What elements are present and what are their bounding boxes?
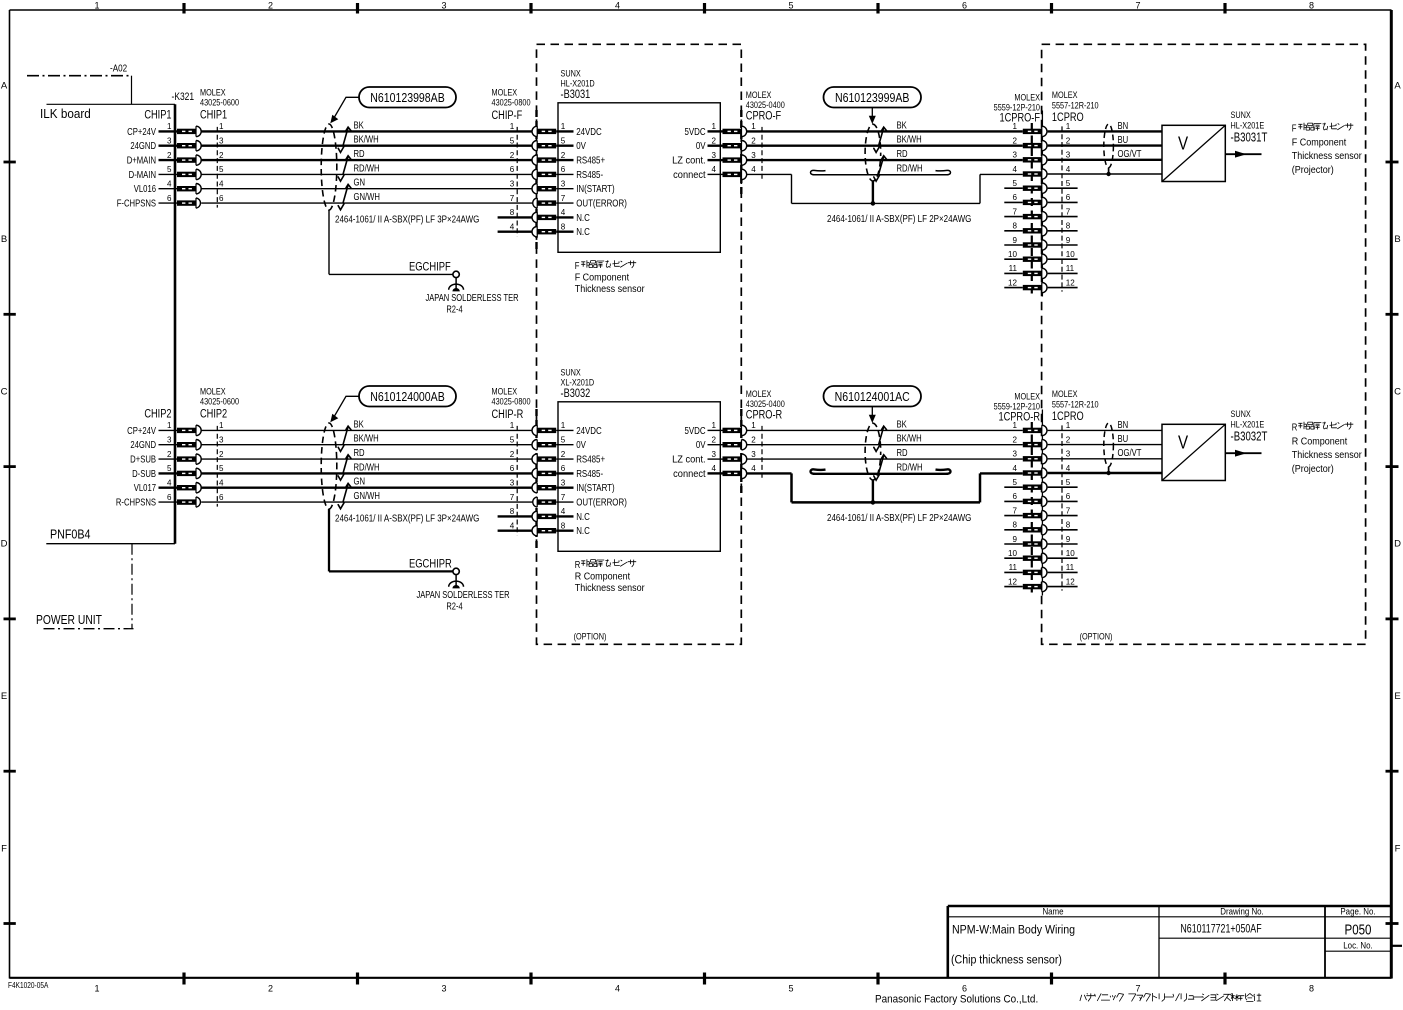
svg-text:LZ cont.: LZ cont.	[672, 454, 705, 466]
svg-text:V: V	[1178, 133, 1189, 154]
svg-text:2: 2	[268, 984, 273, 994]
svg-text:2: 2	[561, 449, 566, 459]
svg-text:43025-0600: 43025-0600	[200, 396, 239, 407]
svg-text:8: 8	[510, 506, 515, 516]
svg-text:GN/WH: GN/WH	[354, 490, 380, 501]
svg-text:1: 1	[510, 420, 515, 430]
svg-text:43025-0800: 43025-0800	[492, 97, 531, 108]
svg-text:3: 3	[1066, 448, 1071, 458]
svg-text:(Projector): (Projector)	[1292, 463, 1334, 475]
svg-text:(Projector): (Projector)	[1292, 164, 1334, 176]
svg-text:4: 4	[1013, 463, 1018, 473]
svg-text:6: 6	[219, 193, 224, 203]
svg-text:2: 2	[167, 449, 172, 459]
svg-text:4: 4	[712, 164, 717, 174]
svg-text:PNF0B4: PNF0B4	[50, 528, 91, 542]
svg-text:8: 8	[1066, 220, 1071, 230]
svg-text:2464-1061/ II A-SBX(PF) LF 3P×: 2464-1061/ II A-SBX(PF) LF 3P×24AWG	[335, 513, 479, 524]
svg-text:-B3032T: -B3032T	[1231, 430, 1268, 443]
svg-text:F: F	[1395, 844, 1401, 855]
svg-text:6: 6	[219, 492, 224, 502]
svg-text:4: 4	[1066, 463, 1071, 473]
svg-text:4: 4	[510, 520, 515, 530]
svg-text:6: 6	[1013, 491, 1018, 501]
svg-text:12: 12	[1008, 576, 1017, 586]
svg-text:RD: RD	[354, 148, 365, 159]
svg-text:BK: BK	[897, 418, 907, 429]
svg-text:R: R	[575, 559, 581, 570]
svg-text:BK/WH: BK/WH	[354, 433, 379, 444]
svg-text:7: 7	[561, 193, 566, 203]
svg-text:3: 3	[441, 984, 446, 994]
svg-text:IN(START): IN(START)	[576, 183, 614, 194]
svg-text:E: E	[1394, 691, 1400, 702]
svg-text:1: 1	[712, 121, 717, 131]
svg-text:6: 6	[1066, 491, 1071, 501]
svg-text:F: F	[1, 844, 7, 855]
svg-text:CHIP1: CHIP1	[200, 108, 227, 121]
svg-text:R-CHPSNS: R-CHPSNS	[116, 496, 156, 507]
svg-text:D+SUB: D+SUB	[130, 454, 156, 465]
svg-text:0V: 0V	[696, 439, 706, 450]
svg-text:N.C: N.C	[576, 511, 590, 522]
svg-text:6: 6	[510, 164, 515, 174]
svg-text:ILK board: ILK board	[40, 106, 91, 120]
svg-text:7: 7	[1135, 1, 1140, 11]
svg-text:2: 2	[167, 150, 172, 160]
svg-text:C: C	[1, 387, 8, 398]
svg-text:RD/WH: RD/WH	[354, 461, 380, 472]
svg-text:2: 2	[1066, 135, 1071, 145]
svg-text:(OPTION): (OPTION)	[574, 630, 607, 641]
svg-text:RD/WH: RD/WH	[897, 162, 923, 173]
svg-text:6: 6	[510, 463, 515, 473]
svg-text:24GND: 24GND	[130, 140, 156, 151]
svg-text:3: 3	[712, 449, 717, 459]
svg-text:N610124000AB: N610124000AB	[370, 389, 445, 404]
svg-text:BK: BK	[354, 418, 364, 429]
svg-text:VL017: VL017	[134, 482, 156, 493]
svg-text:B: B	[1394, 234, 1400, 245]
svg-text:CPRO-R: CPRO-R	[746, 408, 783, 421]
svg-text:2: 2	[561, 150, 566, 160]
svg-text:4: 4	[751, 164, 756, 174]
svg-text:5VDC: 5VDC	[684, 126, 705, 137]
svg-text:4: 4	[167, 477, 172, 487]
svg-text:D-MAIN: D-MAIN	[129, 169, 156, 180]
svg-text:2: 2	[510, 449, 515, 459]
svg-text:2464-1061/ II A-SBX(PF) LF 2P×: 2464-1061/ II A-SBX(PF) LF 2P×24AWG	[827, 512, 971, 523]
svg-text:5: 5	[1013, 178, 1018, 188]
svg-text:A: A	[1394, 81, 1401, 92]
svg-text:IN(START): IN(START)	[576, 482, 614, 493]
svg-text:BU: BU	[1118, 134, 1129, 145]
svg-text:3: 3	[167, 135, 172, 145]
svg-text:RD: RD	[354, 447, 365, 458]
svg-text:BU: BU	[1118, 433, 1129, 444]
svg-text:N610117721+050AF: N610117721+050AF	[1180, 924, 1261, 936]
svg-text:EGCHIPF: EGCHIPF	[409, 260, 451, 273]
svg-text:Loc. No.: Loc. No.	[1343, 940, 1372, 951]
svg-text:7: 7	[1013, 505, 1018, 515]
svg-text:HL-X201E: HL-X201E	[1231, 418, 1265, 429]
svg-text:BK/WH: BK/WH	[897, 134, 922, 145]
svg-text:OUT(ERROR): OUT(ERROR)	[576, 198, 627, 209]
svg-text:3: 3	[441, 1, 446, 11]
svg-text:R2-4: R2-4	[446, 601, 462, 612]
svg-text:2: 2	[751, 135, 756, 145]
svg-text:9: 9	[1066, 534, 1071, 544]
svg-text:1: 1	[167, 121, 172, 131]
svg-text:4: 4	[712, 463, 717, 473]
svg-text:9: 9	[1013, 235, 1018, 245]
svg-text:3: 3	[219, 434, 224, 444]
svg-text:3: 3	[510, 178, 515, 188]
svg-text:E: E	[1, 691, 7, 702]
svg-text:2: 2	[712, 135, 717, 145]
svg-text:RD: RD	[897, 447, 908, 458]
svg-text:SUNX: SUNX	[1231, 408, 1252, 419]
svg-text:3: 3	[1013, 448, 1018, 458]
svg-text:F Component: F Component	[575, 272, 630, 284]
svg-text:3: 3	[1066, 149, 1071, 159]
svg-text:2: 2	[751, 434, 756, 444]
svg-text:GN: GN	[354, 476, 366, 487]
svg-text:2: 2	[268, 1, 273, 11]
svg-text:CP+24V: CP+24V	[127, 126, 156, 137]
svg-text:BN: BN	[1118, 419, 1129, 430]
svg-text:1: 1	[561, 420, 566, 430]
svg-text:7: 7	[561, 492, 566, 502]
svg-text:A: A	[1, 81, 8, 92]
svg-text:12: 12	[1008, 277, 1017, 287]
svg-text:R2-4: R2-4	[446, 304, 462, 315]
svg-text:0V: 0V	[696, 140, 706, 151]
svg-text:24VDC: 24VDC	[576, 425, 602, 436]
svg-text:9: 9	[1013, 534, 1018, 544]
svg-text:N610124001AC: N610124001AC	[835, 389, 910, 404]
svg-text:8: 8	[510, 207, 515, 217]
svg-text:4: 4	[751, 463, 756, 473]
svg-text:4: 4	[615, 984, 620, 994]
svg-text:1: 1	[219, 420, 224, 430]
svg-text:3: 3	[510, 477, 515, 487]
svg-text:3: 3	[1013, 149, 1018, 159]
svg-text:B: B	[1, 234, 7, 245]
svg-text:5: 5	[219, 164, 224, 174]
svg-text:OUT(ERROR): OUT(ERROR)	[576, 497, 627, 508]
svg-text:2: 2	[510, 150, 515, 160]
svg-text:BN: BN	[1118, 120, 1129, 131]
svg-text:6: 6	[962, 1, 967, 11]
svg-text:-A02: -A02	[110, 63, 127, 74]
svg-text:10: 10	[1008, 249, 1017, 259]
svg-text:-K321: -K321	[172, 91, 195, 103]
svg-text:7: 7	[1013, 206, 1018, 216]
svg-text:43025-0600: 43025-0600	[200, 97, 239, 108]
svg-text:4: 4	[219, 178, 224, 188]
svg-text:8: 8	[1309, 1, 1314, 11]
svg-text:-B3032: -B3032	[561, 387, 591, 400]
svg-text:OG/VT: OG/VT	[1118, 148, 1142, 159]
svg-text:5: 5	[561, 135, 566, 145]
svg-text:N610123999AB: N610123999AB	[835, 90, 910, 105]
svg-text:F-CHPSNS: F-CHPSNS	[117, 198, 156, 209]
svg-text:connect: connect	[673, 468, 706, 480]
svg-text:RS485+: RS485+	[576, 155, 605, 166]
svg-text:1CPRO: 1CPRO	[1052, 111, 1084, 124]
svg-text:3: 3	[167, 434, 172, 444]
svg-text:5: 5	[788, 1, 793, 11]
svg-text:24VDC: 24VDC	[576, 126, 602, 137]
svg-text:LZ cont.: LZ cont.	[672, 155, 705, 167]
svg-text:7: 7	[510, 193, 515, 203]
svg-text:RD: RD	[897, 148, 908, 159]
svg-text:F Component: F Component	[1292, 137, 1347, 149]
svg-text:5: 5	[510, 135, 515, 145]
svg-text:7: 7	[1135, 984, 1140, 994]
svg-text:7: 7	[1066, 505, 1071, 515]
svg-text:F: F	[1292, 123, 1297, 134]
svg-text:(OPTION): (OPTION)	[1080, 630, 1113, 641]
svg-text:2: 2	[219, 449, 224, 459]
svg-text:8: 8	[1309, 984, 1314, 994]
svg-text:1CPRO: 1CPRO	[1052, 410, 1084, 423]
svg-text:F4K1020-05A: F4K1020-05A	[8, 980, 49, 990]
svg-text:43025-0800: 43025-0800	[492, 396, 531, 407]
svg-text:OG/VT: OG/VT	[1118, 447, 1142, 458]
svg-text:HL-X201E: HL-X201E	[1231, 119, 1265, 130]
svg-text:1: 1	[219, 121, 224, 131]
svg-text:BK/WH: BK/WH	[897, 433, 922, 444]
svg-text:2: 2	[1013, 434, 1018, 444]
svg-text:5: 5	[1013, 477, 1018, 487]
svg-text:Thickness sensor: Thickness sensor	[1292, 450, 1362, 462]
svg-text:VL016: VL016	[134, 183, 156, 194]
svg-text:4: 4	[510, 221, 515, 231]
svg-text:4: 4	[1013, 164, 1018, 174]
svg-text:4: 4	[219, 477, 224, 487]
svg-text:D-SUB: D-SUB	[132, 468, 156, 479]
svg-text:5557-12R-210: 5557-12R-210	[1052, 99, 1099, 110]
svg-text:6: 6	[561, 164, 566, 174]
svg-text:2: 2	[712, 434, 717, 444]
svg-text:9: 9	[1066, 235, 1071, 245]
svg-text:4: 4	[1066, 164, 1071, 174]
svg-text:SUNX: SUNX	[1231, 109, 1252, 120]
svg-text:R Component: R Component	[575, 571, 631, 583]
svg-text:6: 6	[167, 193, 172, 203]
svg-text:5: 5	[561, 434, 566, 444]
svg-text:6: 6	[1066, 192, 1071, 202]
svg-text:4: 4	[615, 1, 620, 11]
svg-text:CHIP2: CHIP2	[144, 407, 171, 420]
svg-text:5: 5	[167, 463, 172, 473]
svg-text:connect: connect	[673, 169, 706, 181]
svg-text:2464-1061/ II A-SBX(PF) LF 2P×: 2464-1061/ II A-SBX(PF) LF 2P×24AWG	[827, 213, 971, 224]
svg-text:BK: BK	[354, 119, 364, 130]
svg-text:11: 11	[1009, 263, 1018, 273]
svg-text:3: 3	[219, 135, 224, 145]
svg-text:0V: 0V	[576, 140, 586, 151]
svg-text:6: 6	[167, 492, 172, 502]
svg-text:RD/WH: RD/WH	[354, 162, 380, 173]
svg-text:10: 10	[1008, 548, 1017, 558]
svg-text:7: 7	[510, 492, 515, 502]
svg-text:N.C: N.C	[576, 525, 590, 536]
svg-text:D: D	[1, 539, 8, 550]
svg-text:RD/WH: RD/WH	[897, 461, 923, 472]
svg-text:7: 7	[1066, 206, 1071, 216]
svg-text:3: 3	[712, 150, 717, 160]
svg-text:1: 1	[94, 984, 99, 994]
svg-text:Thickness sensor: Thickness sensor	[575, 284, 645, 296]
svg-text:4: 4	[167, 178, 172, 188]
svg-text:5: 5	[219, 463, 224, 473]
svg-text:NPM-W:Main Body Wiring: NPM-W:Main Body Wiring	[952, 924, 1075, 937]
svg-text:2464-1061/ II A-SBX(PF) LF 3P×: 2464-1061/ II A-SBX(PF) LF 3P×24AWG	[335, 214, 479, 225]
svg-text:F: F	[575, 260, 580, 271]
svg-text:4: 4	[561, 207, 566, 217]
svg-text:3: 3	[561, 477, 566, 487]
svg-text:8: 8	[1066, 519, 1071, 529]
svg-text:EGCHIPR: EGCHIPR	[409, 557, 452, 570]
svg-text:BK/WH: BK/WH	[354, 134, 379, 145]
svg-text:R: R	[1292, 422, 1298, 433]
svg-text:5: 5	[788, 984, 793, 994]
svg-text:6: 6	[561, 463, 566, 473]
svg-text:5: 5	[1066, 477, 1071, 487]
svg-text:JAPAN SOLDERLESS TER: JAPAN SOLDERLESS TER	[425, 292, 518, 303]
svg-text:3: 3	[751, 150, 756, 160]
svg-text:Thickness sensor: Thickness sensor	[1292, 151, 1362, 163]
svg-text:11: 11	[1009, 562, 1018, 572]
svg-text:1: 1	[94, 1, 99, 11]
svg-text:24GND: 24GND	[130, 439, 156, 450]
svg-text:GN: GN	[354, 177, 366, 188]
svg-text:2: 2	[1013, 135, 1018, 145]
svg-text:Drawing No.: Drawing No.	[1220, 906, 1264, 917]
svg-text:CHIP-R: CHIP-R	[492, 408, 524, 421]
svg-text:RS485-: RS485-	[576, 169, 603, 180]
svg-text:6: 6	[1013, 192, 1018, 202]
svg-text:12: 12	[1066, 277, 1075, 287]
svg-text:(Chip thickness sensor): (Chip thickness sensor)	[951, 954, 1062, 967]
svg-text:1CPRO-F: 1CPRO-F	[1000, 111, 1041, 124]
svg-text:V: V	[1178, 432, 1189, 453]
svg-text:11: 11	[1066, 562, 1075, 572]
svg-text:JAPAN SOLDERLESS TER: JAPAN SOLDERLESS TER	[416, 589, 509, 600]
svg-text:Name: Name	[1042, 906, 1063, 917]
svg-text:1: 1	[561, 121, 566, 131]
svg-text:1CPRO-R: 1CPRO-R	[998, 410, 1040, 423]
svg-text:POWER UNIT: POWER UNIT	[36, 614, 102, 627]
svg-text:5: 5	[167, 164, 172, 174]
svg-text:2: 2	[1066, 434, 1071, 444]
svg-text:R Component: R Component	[1292, 436, 1348, 448]
svg-text:RS485+: RS485+	[576, 454, 605, 465]
svg-text:Thickness sensor: Thickness sensor	[575, 583, 645, 595]
svg-text:-B3031T: -B3031T	[1231, 131, 1268, 144]
svg-text:CHIP-F: CHIP-F	[492, 109, 523, 122]
svg-text:5VDC: 5VDC	[684, 425, 705, 436]
svg-text:4: 4	[561, 506, 566, 516]
svg-text:10: 10	[1066, 548, 1075, 558]
svg-text:D: D	[1394, 539, 1401, 550]
svg-text:10: 10	[1066, 249, 1075, 259]
svg-text:12: 12	[1066, 576, 1075, 586]
svg-text:8: 8	[1013, 220, 1018, 230]
svg-text:6: 6	[962, 984, 967, 994]
svg-text:CPRO-F: CPRO-F	[746, 109, 782, 122]
svg-text:3: 3	[561, 178, 566, 188]
svg-text:5: 5	[1066, 178, 1071, 188]
svg-text:2: 2	[219, 150, 224, 160]
svg-text:P050: P050	[1345, 921, 1372, 938]
svg-text:CHIP2: CHIP2	[200, 407, 227, 420]
svg-text:8: 8	[561, 221, 566, 231]
svg-text:8: 8	[561, 520, 566, 530]
svg-text:8: 8	[1013, 519, 1018, 529]
svg-text:CP+24V: CP+24V	[127, 425, 156, 436]
svg-text:BK: BK	[897, 119, 907, 130]
svg-text:N.C: N.C	[576, 226, 590, 237]
svg-text:-B3031: -B3031	[561, 88, 591, 101]
svg-text:5: 5	[510, 434, 515, 444]
svg-text:1: 1	[510, 121, 515, 131]
svg-text:C: C	[1394, 387, 1401, 398]
svg-text:RS485-: RS485-	[576, 468, 603, 479]
svg-text:Page. No.: Page. No.	[1340, 906, 1375, 917]
svg-text:GN/WH: GN/WH	[354, 191, 380, 202]
svg-text:N.C: N.C	[576, 212, 590, 223]
svg-text:1: 1	[167, 420, 172, 430]
svg-text:11: 11	[1066, 263, 1075, 273]
svg-text:CHIP1: CHIP1	[144, 108, 171, 121]
svg-text:N610123998AB: N610123998AB	[370, 90, 445, 105]
svg-text:Panasonic Factory Solutions Co: Panasonic Factory Solutions Co.,Ltd.	[875, 994, 1038, 1005]
svg-text:5557-12R-210: 5557-12R-210	[1052, 398, 1099, 409]
svg-text:D+MAIN: D+MAIN	[127, 155, 156, 166]
svg-text:3: 3	[751, 449, 756, 459]
svg-text:0V: 0V	[576, 439, 586, 450]
svg-text:1: 1	[712, 420, 717, 430]
